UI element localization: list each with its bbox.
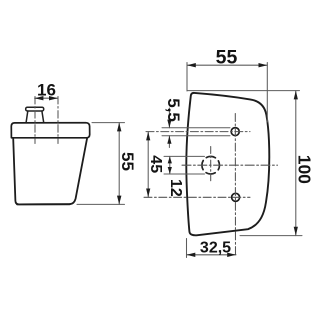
vertical centerline through screw holes: [234, 114, 236, 257]
dimension 55 top arrow right: [259, 63, 268, 67]
dimension 55 side arrow bottom: [117, 196, 121, 205]
dimension 5,5: tangent extension line upper: [162, 127, 230, 129]
dimension 55 side: top extension line: [92, 122, 125, 124]
horizontal centerline big hole: [182, 164, 278, 166]
svg-text:16: 16: [37, 80, 56, 99]
dimension 12: tangent extension line upper: [164, 155, 205, 157]
dimension 16 line: [35, 97, 58, 99]
horizontal centerline bottom screw hole: [144, 196, 250, 198]
svg-text:45: 45: [147, 155, 164, 173]
dimension 32,5 arrow right: [227, 253, 236, 257]
horizontal centerline top screw hole: [146, 131, 250, 133]
dimension 100: top extension line: [187, 90, 300, 92]
dimension 32,5 arrow left: [187, 253, 196, 257]
dimension 100: bottom extension line: [240, 235, 302, 237]
side-view bottom edge emphasize: [17, 203, 70, 205]
dimension 5,5: tangent extension line lower: [162, 135, 230, 137]
dimension 55 top dim line: [187, 64, 267, 66]
dimension 32,5: left extension line: [186, 239, 188, 258]
nozzle right side: [42, 111, 44, 123]
dimension 55 side arrow top: [117, 123, 121, 132]
lamp body outline: [13, 138, 87, 204]
big hole D12 (dashed circle): [202, 156, 220, 174]
dimension 32,5 dim line: [187, 254, 237, 256]
dimension 16 arrow left: [35, 96, 44, 100]
screw hole top: [231, 128, 239, 136]
dimension 55 top: right extension line: [266, 63, 268, 123]
dimension 12: tangent extension line lower: [164, 173, 205, 175]
centerline second axis: [57, 97, 59, 144]
lens outline: [186, 93, 269, 235]
dimension 5,5: upper leader with arrow: [168, 108, 170, 128]
screw hole bottom: [232, 193, 240, 201]
dimension 45 arrow bottom: [146, 189, 150, 198]
dimension 12 dim line: [169, 156, 171, 174]
dimension 55 side: bottom extension line: [77, 203, 125, 205]
dimension 16 arrow right: [49, 96, 58, 100]
dimension 5,5: lower leader with arrow: [168, 136, 170, 148]
svg-text:100: 100: [295, 155, 315, 184]
dimension 100 arrow bottom: [294, 227, 298, 236]
dimension 55 top: left extension line: [186, 63, 188, 92]
dimension 100 dim line: [295, 91, 297, 236]
dimension 55 top arrow left: [187, 63, 196, 67]
lamp lid outline: [11, 123, 89, 138]
svg-text:12: 12: [167, 179, 184, 197]
dimension 45 dim line: [147, 132, 149, 198]
svg-text:5,5: 5,5: [164, 98, 183, 122]
nozzle left side: [26, 111, 28, 123]
centerline nozzle axis: [34, 97, 36, 144]
dimension 12 arrow bottom: [168, 167, 172, 174]
dimension 55 side: dim line: [118, 123, 120, 205]
svg-text:55: 55: [118, 152, 137, 171]
svg-text:55: 55: [216, 46, 238, 68]
dimension 12 arrow top: [168, 156, 172, 163]
svg-text:32,5: 32,5: [200, 239, 231, 256]
dimension 100 arrow top: [294, 91, 298, 100]
dimension 45 arrow top: [146, 132, 150, 141]
vertical centerline big hole: [210, 147, 212, 182]
nozzle lip: [26, 107, 44, 111]
